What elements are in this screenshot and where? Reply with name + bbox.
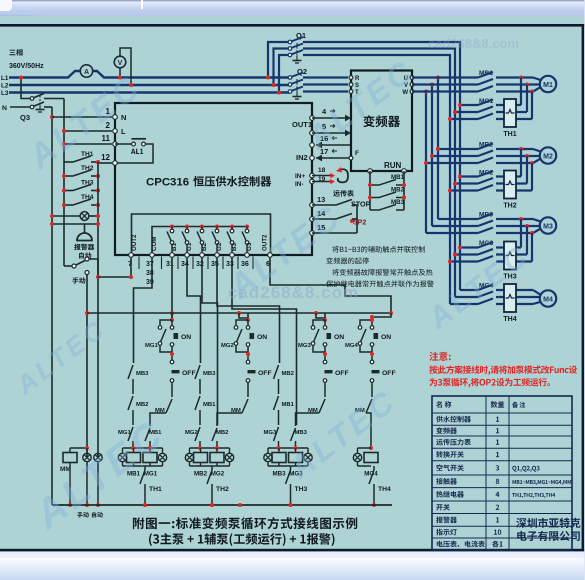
parts table	[432, 396, 580, 550]
wire terminal6 to ladder right	[270, 257, 391, 313]
wire Q1 output to bypass bus	[303, 42, 460, 304]
VFD pins UVW	[402, 76, 414, 96]
wire OUT1 pin4 to VFD	[310, 107, 351, 121]
pin 12	[101, 153, 117, 165]
aux contact MG4 (self hold)	[345, 320, 372, 352]
terminal numbers	[128, 257, 270, 287]
decorative watermarks	[10, 52, 537, 538]
wire L1 tap to Q3	[21, 78, 31, 99]
svg-text:Q3: Q3	[20, 113, 30, 122]
relay contact B3	[227, 225, 234, 256]
wire MB1 to motor M1	[496, 76, 542, 94]
svg-text:B3: B3	[231, 243, 238, 251]
relay contact AL1	[115, 139, 153, 163]
wire terminal7 to auto rail	[98, 257, 131, 277]
svg-text:MB3: MB3	[203, 371, 216, 377]
svg-text:MG2: MG2	[221, 343, 234, 349]
svg-text:ON: ON	[257, 334, 267, 341]
VFD bottom pins	[368, 169, 407, 174]
svg-text:MB1: MB1	[391, 174, 405, 181]
svg-text:MG1: MG1	[145, 343, 158, 349]
pin 1	[106, 107, 127, 122]
wire to pin1	[52, 116, 112, 118]
wire L1	[9, 71, 288, 78]
svg-text:MB3: MB3	[272, 471, 286, 478]
lamp alarm indicator	[50, 212, 100, 221]
aux contact MM in MG3 circuit	[296, 399, 326, 425]
svg-text:MB1: MB1	[203, 402, 216, 408]
svg-text:MG1: MG1	[144, 471, 158, 478]
svg-text:TH1: TH1	[503, 131, 516, 138]
contactor MB3 contacts	[426, 212, 493, 234]
wire start column MG1	[171, 313, 173, 320]
svg-text:TH1: TH1	[81, 151, 94, 158]
wire MG3 through TH3 to M3	[496, 219, 532, 262]
pushbutton OFF MG4	[370, 360, 395, 397]
wire to pin2	[64, 130, 112, 132]
alarm bell 报警器	[50, 222, 100, 241]
contactor MG1 contacts	[448, 98, 494, 121]
voltmeter V	[114, 56, 126, 68]
svg-text:V: V	[118, 60, 123, 67]
svg-text:M3: M3	[543, 223, 553, 230]
wire MB2 to motor M2	[496, 147, 542, 165]
aux contact MM in MG1 circuit	[150, 399, 172, 425]
svg-text:ON: ON	[334, 334, 344, 341]
svg-text:G3: G3	[246, 242, 253, 251]
svg-text:OFF: OFF	[382, 370, 396, 377]
wire terminal37 to pump1 chain	[134, 257, 153, 363]
svg-text:L3: L3	[1, 90, 9, 97]
run enable contacts MB1 MB2 MB3	[368, 171, 406, 210]
series contacts MB2 MB1 chain	[264, 365, 295, 448]
contactor MB1 contacts	[412, 70, 493, 92]
svg-text:360V/50Hz: 360V/50Hz	[9, 63, 44, 70]
pin19 IN- remote gauge	[295, 176, 335, 188]
thermal contact TH2 (alarm input)	[62, 165, 100, 178]
svg-text:19: 19	[318, 176, 326, 183]
svg-text:TH3: TH3	[81, 180, 94, 187]
svg-text:OUT2: OUT2	[131, 234, 138, 251]
svg-text:MB1: MB1	[282, 402, 295, 408]
stop button pin13	[310, 195, 371, 209]
pushbutton OFF MG1	[170, 360, 195, 397]
svg-text:COM: COM	[151, 237, 158, 251]
aux contact MG2 (self hold)	[234, 320, 248, 352]
wire V bus	[431, 85, 433, 227]
motor M1	[540, 76, 556, 92]
wire MG4 through TH4 to M4	[496, 290, 542, 304]
wire Q2 to VFD RST	[303, 78, 348, 92]
wire start column MG2	[239, 313, 248, 320]
svg-text:MG2: MG2	[185, 430, 198, 436]
pushbutton ON MG2	[246, 320, 267, 361]
coil MG4 with lamp	[353, 448, 378, 478]
thermal contact TH1 (alarm input)	[64, 151, 100, 164]
svg-text:TH2: TH2	[216, 486, 229, 493]
controller bottom terminals	[129, 253, 273, 258]
svg-text:B1: B1	[171, 243, 178, 251]
svg-text:OFF: OFF	[258, 370, 272, 377]
ammeter A	[80, 65, 92, 77]
thermal relay TH2	[504, 171, 516, 199]
svg-text:RUN: RUN	[384, 161, 402, 170]
svg-text:L: L	[121, 127, 126, 136]
svg-text:TH1: TH1	[149, 486, 162, 493]
thermal contact TH4 in MG4 circuit	[369, 466, 391, 507]
coil row MB2 MG2	[185, 446, 233, 478]
relay contact G3	[242, 225, 249, 256]
wire terminal34 to pump2 chain	[187, 257, 201, 363]
svg-text:MB3: MB3	[391, 199, 405, 206]
pin 2	[106, 121, 126, 136]
relay contact G1	[182, 225, 189, 256]
svg-text:F: F	[355, 150, 359, 157]
wire start column MG4	[372, 313, 391, 320]
breaker Q3	[20, 94, 64, 123]
controller U1 CPC316 box	[115, 103, 312, 255]
pressure switch SP2 pin14	[310, 209, 367, 227]
pushbutton OFF MG2	[246, 360, 271, 397]
svg-text:TH4: TH4	[503, 316, 516, 323]
pushbutton OFF MG3	[323, 360, 348, 397]
wire L3	[9, 91, 290, 93]
svg-text:IN-: IN-	[295, 181, 304, 188]
wire IN2 pin16 from VFD	[310, 134, 351, 148]
svg-text:B2: B2	[201, 243, 208, 251]
svg-text:TH2: TH2	[503, 203, 516, 210]
svg-text:IN2: IN2	[296, 153, 308, 162]
relay contact B2	[197, 225, 204, 256]
svg-text:MG3: MG3	[264, 430, 277, 436]
caption 附图一	[133, 517, 357, 546]
pin18 IN+ remote gauge	[295, 167, 335, 180]
coil row MB3 MG3	[264, 446, 312, 478]
wire OUT2 link (inner box)	[132, 214, 271, 255]
wire Q1 feed taps	[266, 42, 288, 95]
label 手动 自动 indicators	[77, 512, 102, 518]
pushbutton ON MG3	[323, 320, 344, 361]
wire N	[10, 106, 31, 108]
relay contact B1	[167, 225, 174, 256]
svg-text:MG3: MG3	[298, 343, 311, 349]
contactor MG2 contacts	[448, 170, 494, 193]
wire pin15	[310, 205, 357, 235]
thermal contact TH2	[207, 466, 229, 507]
aux contact MM in MG2 circuit	[217, 399, 248, 425]
svg-text:MG4: MG4	[345, 343, 358, 349]
svg-text:12: 12	[101, 153, 110, 162]
thermal relay TH3	[504, 242, 516, 270]
wire voltmeter taps	[119, 68, 121, 78]
aux contact MG1 (self hold)	[158, 320, 172, 352]
svg-text:MB2: MB2	[391, 187, 405, 194]
svg-text:OFF: OFF	[182, 370, 196, 377]
label 深圳市亚特克电子有限公司	[516, 518, 580, 541]
breaker Q2	[288, 67, 307, 99]
wire W bus	[425, 92, 427, 234]
lamp manual indicator	[83, 448, 91, 507]
svg-text:MB2: MB2	[282, 371, 295, 377]
svg-text:ON: ON	[181, 334, 191, 341]
relay contact G2	[212, 225, 219, 256]
svg-text:ON: ON	[381, 334, 391, 341]
svg-text:MB3: MB3	[295, 430, 308, 436]
contactor MB2 contacts	[424, 142, 493, 166]
svg-text:TH4: TH4	[81, 194, 94, 201]
interlock contact MB2	[212, 425, 229, 448]
lamp auto indicator	[94, 453, 102, 507]
wire to pin11	[64, 143, 112, 145]
wire auto to alarm rail	[89, 259, 98, 277]
wire auto rail x98 down	[97, 277, 99, 457]
wire manual rail x87	[86, 275, 88, 458]
wire terminal33 to pump3 interlock	[232, 257, 297, 425]
interlock contact MB1	[145, 425, 162, 448]
wire control rail	[87, 312, 391, 314]
wire MG1 through TH1 to M1	[496, 78, 532, 120]
wire L2	[9, 84, 290, 86]
svg-text:IN+: IN+	[295, 173, 306, 180]
svg-text:cad268&8.com: cad268&8.com	[228, 283, 359, 302]
breaker Q1	[288, 31, 306, 63]
wire MB3 to motor M3	[496, 217, 542, 235]
selector switch 手动/自动	[64, 252, 91, 283]
interlock contact MB3	[291, 425, 308, 448]
svg-text:M2: M2	[543, 153, 553, 160]
wire IN2 pin17 from VFD	[310, 147, 351, 161]
wire terminal35 to pump3 chain	[217, 257, 280, 363]
thermal contact TH3 (alarm input)	[62, 180, 100, 193]
svg-text:OFF: OFF	[335, 370, 349, 377]
thermal contact TH4 (alarm input)	[62, 194, 100, 207]
contactor coil MM	[60, 446, 89, 507]
motor M3	[540, 217, 556, 233]
wire start column MG3	[316, 313, 325, 320]
svg-text:N: N	[2, 105, 7, 112]
svg-text:cad268&8.com: cad268&8.com	[428, 36, 519, 51]
pushbutton ON MG1	[170, 320, 191, 361]
svg-text:11: 11	[102, 134, 111, 143]
wire pin12 to TH rail	[98, 162, 112, 164]
wire L rail x64	[63, 99, 65, 267]
svg-text:18: 18	[318, 167, 326, 174]
svg-text:STOP: STOP	[351, 200, 371, 209]
VFD pin F	[349, 150, 359, 160]
red note 注意	[429, 352, 577, 388]
node label 三相 360V/50Hz	[9, 49, 22, 56]
thermal relay TH1	[504, 99, 516, 127]
svg-text:G2: G2	[216, 242, 223, 251]
motor M2	[540, 147, 556, 163]
pushbutton ON MG4	[370, 318, 391, 361]
VFD pins RST	[349, 76, 360, 96]
pin 11	[102, 134, 118, 146]
remote pressure gauge 远传表	[336, 167, 348, 182]
coil row MB1 MG1	[118, 446, 166, 478]
svg-text:MG2: MG2	[211, 471, 225, 478]
svg-text:TH4: TH4	[378, 486, 391, 493]
motor M4	[540, 290, 556, 306]
label 变频器	[363, 115, 400, 127]
wire COM line	[152, 227, 247, 256]
svg-text:MB2: MB2	[194, 471, 208, 478]
svg-text:TH3: TH3	[295, 486, 308, 493]
svg-text:L2: L2	[1, 83, 9, 90]
wire U bus	[437, 78, 439, 220]
svg-text:CPC316: CPC316	[146, 177, 189, 189]
svg-text:M1: M1	[543, 82, 553, 89]
series contacts MB3 MB1 chain	[185, 365, 216, 448]
VFD U2 变频器 box	[351, 71, 412, 172]
svg-text:MB3: MB3	[136, 371, 149, 377]
svg-text:M4: M4	[543, 296, 553, 303]
contactor MG3 contacts	[448, 240, 494, 264]
svg-text:SP2: SP2	[353, 220, 366, 227]
wire MG2 through TH2 to M2	[496, 149, 532, 191]
svg-text:L1: L1	[1, 75, 9, 82]
aux contact MM in MG4 circuit	[355, 399, 373, 450]
series contacts MB3 MB2 chain	[118, 365, 149, 448]
wire alarm rail x98	[97, 162, 99, 277]
thermal contact TH1	[140, 466, 162, 507]
svg-text:MB2: MB2	[136, 402, 149, 408]
wire terminal31 to pump1 start column	[171, 257, 173, 320]
wire OUT1 pin5 to VFD	[310, 122, 351, 136]
wire N rail x52	[51, 107, 53, 505]
svg-text:R: R	[355, 76, 360, 82]
aux contact MG3 (self hold)	[311, 320, 325, 352]
label CPC316恒压供水控制器	[146, 176, 271, 189]
wire neutral bottom bus	[52, 504, 392, 506]
note text B1-B3 parallel control	[326, 246, 434, 287]
svg-text:TH2: TH2	[81, 165, 94, 172]
svg-text:G1: G1	[186, 242, 193, 251]
svg-text:MB2: MB2	[216, 430, 229, 436]
thermal relay TH4	[504, 284, 516, 312]
contactor MG4 contacts	[450, 283, 494, 305]
label 远传表	[333, 190, 354, 197]
thermal contact TH3	[286, 466, 308, 507]
svg-text:A: A	[84, 69, 89, 76]
wire terminal32 to pump2 interlock	[202, 257, 218, 425]
